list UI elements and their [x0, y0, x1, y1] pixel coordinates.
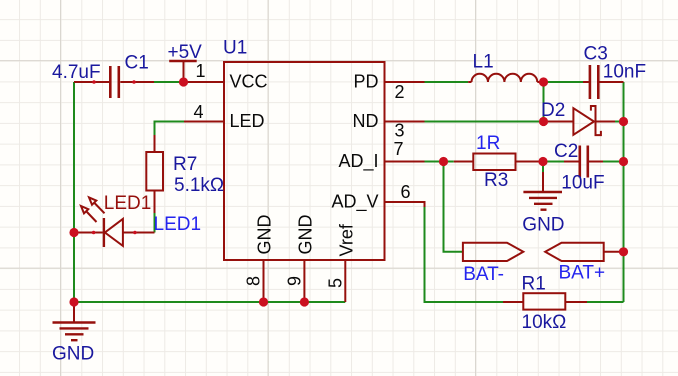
wire C2 node to ground	[542, 162, 544, 173]
svg-text:C2: C2	[554, 141, 578, 162]
wire AD_V down and to R1	[425, 206, 504, 302]
node +5V/VCC junction	[179, 77, 188, 86]
pin 1 VCC	[184, 61, 268, 92]
svg-text:LED1: LED1	[104, 193, 152, 214]
pin 4 LED	[184, 102, 265, 131]
svg-text:5: 5	[325, 278, 345, 288]
ground (bottom left)	[52, 302, 96, 365]
wire ND to D2	[425, 121, 544, 123]
svg-text:GND: GND	[52, 344, 94, 365]
power +5V	[168, 42, 203, 82]
wire right rail vertical	[623, 82, 625, 302]
svg-text:BAT-: BAT-	[463, 264, 504, 285]
pin 6 AD_V	[331, 182, 424, 213]
svg-text:VCC: VCC	[230, 72, 268, 92]
svg-text:BAT+: BAT+	[559, 263, 606, 284]
resistor R7	[146, 135, 224, 213]
node D2/rail junction	[619, 117, 628, 126]
svg-text:1R: 1R	[476, 133, 500, 154]
pin 8 GND	[244, 215, 275, 303]
svg-text:3: 3	[394, 121, 404, 141]
pin 7 AD_I	[338, 139, 424, 172]
wire R7 to LED1	[154, 213, 156, 233]
svg-text:5.1kΩ: 5.1kΩ	[174, 175, 224, 196]
node C2/rail junction	[619, 157, 628, 166]
wire AD_I node down to BAT-	[444, 162, 463, 252]
wire AD_I to R3	[425, 161, 454, 163]
svg-text:10uF: 10uF	[561, 173, 604, 194]
wire C1 to +5V node	[154, 81, 184, 83]
node AD_I junction	[439, 157, 448, 166]
svg-text:AD_I: AD_I	[338, 151, 378, 172]
svg-text:1: 1	[195, 61, 205, 81]
svg-text:PD: PD	[353, 72, 378, 92]
svg-text:8: 8	[244, 276, 264, 286]
svg-text:6: 6	[400, 182, 410, 202]
diode D2 (schottky)	[541, 100, 615, 135]
svg-text:GND: GND	[296, 215, 316, 255]
wire R1 to right rail corner	[587, 301, 624, 303]
svg-text:7: 7	[393, 139, 403, 159]
ground (near C2)	[522, 172, 564, 236]
node L1/C3 junction	[539, 77, 548, 86]
capacitor C1	[52, 53, 154, 99]
svg-text:R7: R7	[173, 154, 197, 175]
svg-text:R3: R3	[484, 170, 508, 191]
node pin9 junction	[300, 297, 309, 306]
svg-text:L1: L1	[473, 52, 494, 73]
svg-text:9: 9	[284, 276, 304, 286]
wire L1 node down to D2 node	[543, 82, 545, 122]
svg-text:AD_V: AD_V	[331, 192, 378, 213]
wire C2 to right rail	[603, 161, 624, 163]
resistor R1	[503, 274, 587, 334]
wire PD to L1	[425, 81, 469, 83]
svg-text:4: 4	[193, 102, 203, 122]
pin 3 ND	[353, 111, 425, 141]
resistor R3	[454, 133, 539, 191]
connector BAT-	[463, 243, 523, 285]
wire D2 to right rail	[615, 121, 624, 123]
wire left rail vertical	[73, 82, 75, 302]
node D2 anode junction	[539, 117, 548, 126]
node pin8 junction	[259, 297, 268, 306]
svg-text:C1: C1	[125, 53, 149, 74]
capacitor C2	[554, 141, 605, 194]
pin 9 GND	[284, 215, 315, 303]
svg-text:10kΩ: 10kΩ	[522, 312, 567, 333]
connector BAT+	[545, 243, 623, 284]
node ground rail left junction	[69, 297, 78, 306]
wire L1 to C3	[544, 81, 584, 83]
wire pin4 to R7	[155, 122, 185, 136]
svg-text:U1: U1	[223, 38, 247, 59]
capacitor C3	[583, 44, 646, 100]
node BAT+/rail junction	[619, 247, 628, 256]
svg-text:Vref: Vref	[336, 223, 356, 256]
node R3/C2/GND junction	[538, 157, 547, 166]
inductor L1	[468, 52, 543, 83]
svg-text:2: 2	[394, 82, 404, 102]
LED LED1	[75, 193, 201, 247]
pin 5 Vref	[325, 223, 356, 302]
wire bottom ground rail	[74, 301, 345, 303]
svg-text:10nF: 10nF	[603, 62, 646, 83]
svg-text:LED1: LED1	[154, 214, 202, 235]
node LED1 left junction	[69, 228, 78, 237]
svg-text:+5V: +5V	[168, 42, 203, 63]
IC U1 body	[223, 38, 385, 261]
svg-text:4.7uF: 4.7uF	[52, 62, 101, 83]
svg-text:R1: R1	[522, 274, 546, 295]
pin 2 PD	[353, 72, 424, 103]
svg-text:LED: LED	[230, 111, 265, 131]
svg-text:ND: ND	[353, 111, 379, 131]
svg-text:GND: GND	[255, 215, 275, 255]
wire R3 to C2 node	[539, 161, 564, 163]
svg-text:GND: GND	[522, 215, 564, 236]
